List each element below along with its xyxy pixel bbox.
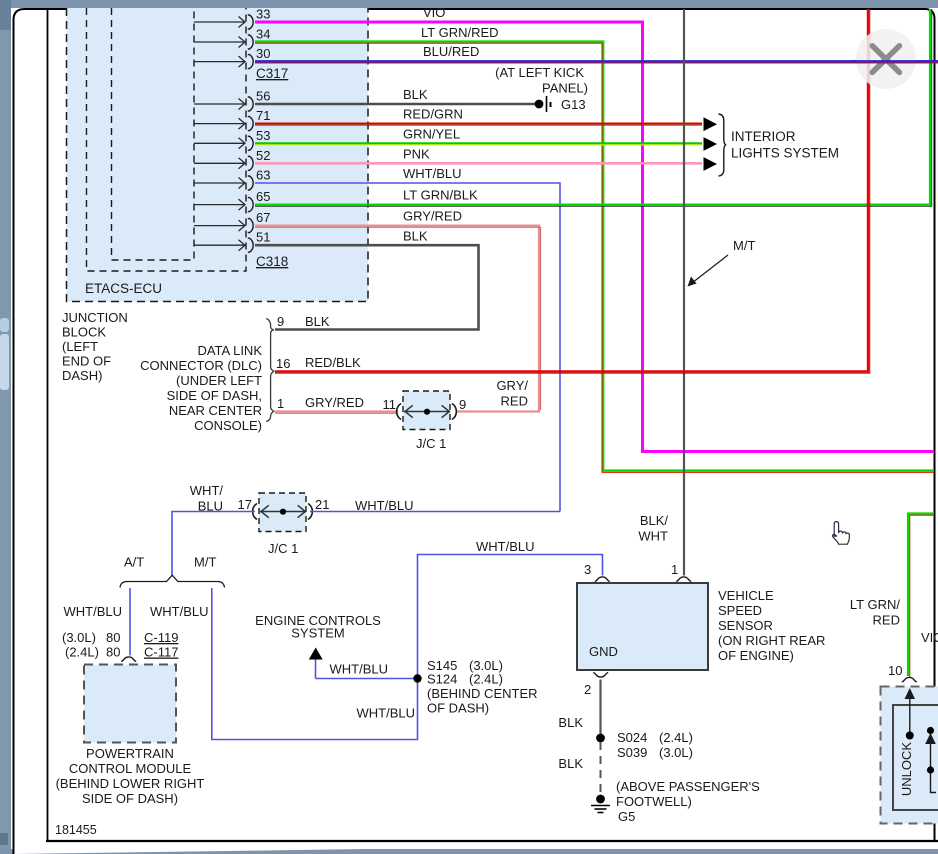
- G5 label: [618, 809, 635, 824]
- pin 10 bracket: [902, 677, 917, 682]
- wire GRN/YEL label: [403, 127, 460, 142]
- wire VIO label: [423, 5, 445, 20]
- ETACS pin 63 arrow: [194, 178, 245, 189]
- svg-text:SENSOR: SENSOR: [718, 618, 773, 633]
- J/C 1 (upper) label: [416, 436, 446, 451]
- ETACS pin 56 connector bracket: [248, 89, 271, 112]
- UNLOCK rotated label: [899, 742, 914, 797]
- svg-text:SIDE OF DASH,: SIDE OF DASH,: [167, 388, 262, 403]
- wire PNK pin52: [255, 162, 702, 165]
- ETACS pin 34 arrow: [194, 37, 245, 48]
- wire GRY from VSS pin2 to S024: [599, 680, 601, 738]
- svg-text:1: 1: [671, 562, 678, 577]
- svg-text:GRY/RED: GRY/RED: [305, 395, 364, 410]
- wire LT GRN/RED lower segment to pin 10: [908, 514, 934, 678]
- ETACS pin 30 arrow: [194, 56, 245, 67]
- svg-text:71: 71: [256, 108, 270, 123]
- wire BLK pin56 to G13: [255, 103, 535, 106]
- svg-text:(2.4L): (2.4L): [469, 672, 503, 687]
- wire WHT/BLU from J/C1 pin17 down to A/T M/T brace: [172, 512, 255, 576]
- VSS pin 2 bracket: [584, 673, 608, 698]
- svg-text:RED: RED: [873, 613, 900, 628]
- svg-text:(2.4L): (2.4L): [65, 645, 99, 660]
- svg-text:RED: RED: [501, 394, 528, 409]
- svg-text:VIO: VIO: [921, 630, 938, 645]
- svg-text:3: 3: [584, 562, 591, 577]
- svg-text:1: 1: [277, 396, 284, 411]
- ENGINE CONTROLS SYSTEM label: [255, 613, 381, 641]
- wire GRY/RED pin67 (salmon): [255, 226, 541, 412]
- svg-text:OF ENGINE): OF ENGINE): [718, 648, 794, 663]
- svg-text:(2.4L): (2.4L): [659, 730, 693, 745]
- svg-text:BLOCK: BLOCK: [62, 325, 106, 340]
- ETACS pin 52 connector bracket: [248, 148, 271, 171]
- svg-text:VEHICLE: VEHICLE: [718, 588, 774, 603]
- M/T branch lower WHT/BLU label: [357, 706, 416, 721]
- wire GRY/RED from DLC pin1 to J/C1: [275, 412, 398, 414]
- svg-text:DATA LINK: DATA LINK: [197, 343, 262, 358]
- wire WHT/BLU label: [403, 166, 462, 181]
- svg-text:(BEHIND LOWER RIGHT: (BEHIND LOWER RIGHT: [56, 776, 205, 791]
- wire BLK label: [403, 87, 428, 102]
- svg-text:C318: C318: [256, 254, 288, 269]
- ETACS-ECU label: [85, 281, 162, 296]
- svg-text:30: 30: [256, 46, 270, 61]
- svg-text:FOOTWELL): FOOTWELL): [616, 794, 692, 809]
- ETACS pin 67 connector bracket: [248, 210, 271, 233]
- svg-text:SPEED: SPEED: [718, 603, 762, 618]
- svg-text:BLK: BLK: [558, 715, 583, 730]
- svg-text:63: 63: [256, 168, 270, 183]
- svg-text:M/T: M/T: [733, 238, 755, 253]
- VSS pin 3 bracket: [584, 562, 610, 582]
- wire RED/GRN label: [403, 107, 463, 122]
- top window band: [0, 0, 938, 8]
- svg-text:DASH): DASH): [62, 368, 102, 383]
- wire WHT/BLU M/T branch: [212, 555, 603, 740]
- diagram left border line: [47, 9, 49, 841]
- engine controls arrow: [309, 648, 323, 660]
- ETACS pin 52 arrow: [194, 158, 245, 169]
- close button: [856, 29, 916, 89]
- svg-text:GRY/: GRY/: [496, 378, 528, 393]
- svg-text:(3.0L): (3.0L): [659, 745, 693, 760]
- junction connector J/C 1 (upper) box: [403, 391, 450, 430]
- svg-text:INTERIOR: INTERIOR: [731, 129, 796, 144]
- svg-text:52: 52: [256, 148, 270, 163]
- svg-text:UNLOCK: UNLOCK: [899, 742, 914, 797]
- svg-text:RED/GRN: RED/GRN: [403, 107, 463, 122]
- DLC BLK wire label: [305, 314, 330, 329]
- wire WHT/BLU A/T branch: [129, 588, 131, 656]
- engine controls branch WHT/BLU label: [330, 662, 389, 677]
- svg-text:C-117: C-117: [144, 645, 178, 660]
- wire WHT/BLU from J/C1 pin21 to vertical: [310, 511, 560, 513]
- svg-text:BLK/: BLK/: [640, 513, 669, 528]
- svg-text:OF DASH): OF DASH): [427, 701, 489, 716]
- ETACS-ECU inner dashed box 2: [87, 8, 247, 271]
- svg-text:(3.0L): (3.0L): [62, 630, 96, 645]
- svg-text:BLK: BLK: [305, 314, 330, 329]
- svg-text:SYSTEM: SYSTEM: [291, 626, 344, 641]
- svg-text:11: 11: [383, 397, 397, 412]
- connector C318 label: [256, 254, 288, 269]
- svg-text:BLK: BLK: [558, 756, 583, 771]
- INTERIOR LIGHTS SYSTEM label: [731, 129, 839, 161]
- svg-text:M/T: M/T: [194, 555, 216, 570]
- BLK label lower: [558, 756, 583, 771]
- ETACS-ECU inner dashed box 3: [112, 8, 195, 260]
- svg-text:(UNDER LEFT: (UNDER LEFT: [176, 373, 262, 388]
- door lock dashed box (UNLOCK): [881, 687, 938, 824]
- svg-text:RED/BLK: RED/BLK: [305, 355, 361, 370]
- ETACS pin 34 connector bracket: [248, 27, 271, 50]
- ETACS pin 51 arrow: [194, 240, 245, 251]
- wire PNK label: [403, 147, 430, 162]
- J/C 1 (lower) right bracket pin 21: [308, 497, 329, 520]
- svg-text:S124: S124: [427, 672, 457, 687]
- svg-text:GND: GND: [589, 644, 618, 659]
- LT GRN/RED label (right): [850, 597, 900, 628]
- ETACS pin 67 arrow: [194, 220, 245, 231]
- pin 10 label: [888, 663, 902, 678]
- interior lights arrow 2 (GRN/YEL): [704, 137, 718, 151]
- VSS caption: [718, 588, 825, 663]
- wire BLK dashed to G5: [600, 742, 602, 797]
- svg-text:CONSOLE): CONSOLE): [194, 418, 262, 433]
- ETACS pin 51 connector bracket: [248, 230, 271, 253]
- PCM caption: [56, 746, 205, 806]
- svg-text:PANEL): PANEL): [542, 81, 588, 96]
- (3.0L) 80 C-119 row: [62, 630, 178, 645]
- svg-text:16: 16: [276, 356, 290, 371]
- A/T M/T split brace: [120, 575, 225, 587]
- ETACS pin 65 arrow: [194, 199, 245, 210]
- svg-text:(ABOVE PASSENGER'S: (ABOVE PASSENGER'S: [616, 779, 760, 794]
- svg-text:67: 67: [256, 210, 270, 225]
- wire BLK pin51 to DLC pin9: [255, 245, 479, 329]
- svg-text:WHT/BLU: WHT/BLU: [330, 662, 389, 677]
- VIO label (right, clipped): [921, 630, 938, 645]
- J/C 1 (upper) left bracket pin 11: [383, 397, 402, 420]
- VSS pin 1 bracket: [671, 562, 691, 582]
- interior lights arrow 1 (RED/GRN): [704, 117, 718, 131]
- M/T callout arrow: [688, 255, 729, 287]
- hand cursor: [832, 522, 849, 545]
- wire LT GRN/BLK pin65 (green w black stripe): [255, 9, 932, 206]
- interior lights brace: [719, 114, 727, 176]
- svg-text:2: 2: [584, 682, 591, 697]
- svg-text:(LEFT: (LEFT: [62, 339, 98, 354]
- svg-text:POWERTRAIN: POWERTRAIN: [86, 746, 174, 761]
- BLK label upper: [558, 715, 583, 730]
- A/T label: [124, 555, 144, 570]
- left window band: [0, 0, 11, 850]
- WHT/BLU label left of lower J/C 1: [190, 483, 224, 514]
- JUNCTION BLOCK caption: [62, 310, 128, 383]
- wire RED/BLK from DLC pin16 (red w black stripe): [275, 9, 870, 373]
- ground G13 symbol: [535, 96, 586, 112]
- svg-text:A/T: A/T: [124, 555, 144, 570]
- svg-text:53: 53: [256, 128, 270, 143]
- wire RED/GRN pin71 (red w green stripe): [255, 124, 702, 126]
- svg-text:9: 9: [277, 314, 284, 329]
- DLC connector bracket with pin bumps: [266, 314, 290, 422]
- svg-text:C-119: C-119: [144, 630, 178, 645]
- svg-text:65: 65: [256, 189, 270, 204]
- wire LT GRN/BLK label: [403, 188, 478, 203]
- J/C 1 (lower) left bracket pin 17: [238, 497, 257, 520]
- svg-text:34: 34: [256, 27, 270, 42]
- svg-text:J/C 1: J/C 1: [416, 436, 446, 451]
- J/C 1 (lower) internals: [260, 505, 306, 517]
- junction connector J/C 1 (lower) box: [259, 493, 306, 532]
- wire BLU/RED overlay across close button: [850, 61, 938, 63]
- svg-text:LT GRN/BLK: LT GRN/BLK: [403, 188, 478, 203]
- M/T label: [194, 555, 216, 570]
- svg-text:G13: G13: [561, 97, 586, 112]
- svg-text:S039: S039: [617, 745, 647, 760]
- svg-text:9: 9: [459, 397, 466, 412]
- svg-text:ETACS-ECU: ETACS-ECU: [85, 281, 162, 296]
- svg-text:LT GRN/RED: LT GRN/RED: [421, 25, 499, 40]
- wire LT GRN/RED pin34 (green w red stripe): [255, 42, 934, 473]
- svg-text:WHT: WHT: [638, 529, 668, 544]
- G13 location note: [495, 65, 588, 96]
- splice S145/S124 dot: [413, 674, 421, 682]
- WHT/BLU label above VSS wire: [476, 539, 535, 554]
- wire BLU/RED pin30 (blue w red stripe): [255, 61, 938, 63]
- svg-text:80: 80: [106, 630, 120, 645]
- DATA LINK CONNECTOR caption: [140, 343, 262, 433]
- splice S024/S039 labels: [617, 730, 693, 760]
- diagram number 181455: [55, 823, 97, 837]
- ETACS pin 53 connector bracket: [248, 128, 271, 151]
- vehicle speed sensor box: [577, 583, 708, 670]
- svg-text:CONTROL MODULE: CONTROL MODULE: [69, 761, 192, 776]
- splice S145/S124 labels: [427, 658, 538, 716]
- ETACS pin 53 arrow: [194, 138, 245, 149]
- svg-text:17: 17: [238, 497, 252, 512]
- svg-text:BLK: BLK: [403, 229, 428, 244]
- svg-text:21: 21: [315, 497, 329, 512]
- svg-text:BLK: BLK: [403, 87, 428, 102]
- svg-text:CONNECTOR (DLC): CONNECTOR (DLC): [140, 358, 262, 373]
- ETACS pin 71 connector bracket: [248, 108, 271, 131]
- bottom window band: [0, 849, 938, 854]
- wire LT GRN/RED label: [421, 25, 499, 40]
- ground G5 symbol: [591, 795, 610, 813]
- svg-text:G5: G5: [618, 809, 635, 824]
- svg-text:S024: S024: [617, 730, 647, 745]
- ETACS pin 33 connector bracket: [248, 7, 271, 30]
- G5 location note: [616, 779, 760, 809]
- svg-text:PNK: PNK: [403, 147, 430, 162]
- DLC GRY/RED wire label: [305, 395, 364, 410]
- svg-text:SIDE OF DASH): SIDE OF DASH): [82, 791, 178, 806]
- door lock switch inner box: [893, 705, 938, 810]
- svg-text:BLU/RED: BLU/RED: [423, 44, 479, 59]
- svg-text:(AT LEFT KICK: (AT LEFT KICK: [495, 65, 584, 80]
- svg-text:WHT/BLU: WHT/BLU: [357, 706, 416, 721]
- switch arrow 1: [905, 688, 916, 740]
- ETACS-ECU outer dashed box (blue): [67, 8, 369, 302]
- M/T branch WHT/BLU label: [150, 604, 209, 619]
- wire BLU/RED label: [423, 44, 479, 59]
- wire RED/BLK label: [305, 355, 361, 370]
- ETACS pin 30 connector bracket: [248, 46, 271, 69]
- VSS GND label: [589, 644, 618, 659]
- powertrain control module dashed box: [84, 665, 176, 743]
- svg-text:WHT/BLU: WHT/BLU: [150, 604, 209, 619]
- (2.4L) 80 C-117 row: [65, 645, 178, 660]
- GRY/RED right label (near J/C1): [496, 378, 528, 409]
- switch arrow 2: [925, 727, 936, 793]
- J/C 1 (upper) right bracket pin 9: [452, 397, 466, 420]
- J/C 1 (lower) label: [268, 541, 298, 556]
- svg-text:END OF: END OF: [62, 354, 111, 369]
- splice S024/S039 dot: [596, 734, 605, 743]
- svg-text:10: 10: [888, 663, 902, 678]
- ETACS pin 56 arrow: [194, 99, 245, 110]
- WHT/BLU label right of lower J/C 1: [355, 498, 414, 513]
- wire BLK/WHT vertical (to VSS pin 1): [683, 9, 685, 576]
- wire WHT/BLU pin63: [255, 183, 560, 512]
- wire GRN/YEL pin53 (green w yellow stripe): [255, 143, 702, 145]
- svg-text:56: 56: [256, 89, 270, 104]
- svg-text:80: 80: [106, 645, 120, 660]
- svg-text:JUNCTION: JUNCTION: [62, 310, 128, 325]
- wire VIO pin33 (magenta): [255, 22, 934, 452]
- J/C 1 (upper) internals: [404, 405, 450, 417]
- svg-text:GRY/RED: GRY/RED: [403, 209, 462, 224]
- svg-text:LT GRN/: LT GRN/: [850, 597, 900, 612]
- svg-text:(ON RIGHT REAR: (ON RIGHT REAR: [718, 633, 825, 648]
- svg-text:WHT/: WHT/: [190, 483, 224, 498]
- svg-text:WHT/BLU: WHT/BLU: [476, 539, 535, 554]
- svg-text:WHT/BLU: WHT/BLU: [403, 166, 462, 181]
- wire BLK/WHT label: [638, 513, 668, 544]
- svg-text:J/C 1: J/C 1: [268, 541, 298, 556]
- diagram bottom border line: [46, 840, 938, 842]
- svg-text:NEAR CENTER: NEAR CENTER: [169, 403, 262, 418]
- connector C317 label: [256, 66, 288, 81]
- svg-text:C317: C317: [256, 66, 288, 81]
- ETACS pin 33 arrow: [194, 17, 245, 28]
- svg-text:51: 51: [256, 230, 270, 245]
- svg-text:WHT/BLU: WHT/BLU: [64, 604, 123, 619]
- ETACS pin 63 connector bracket: [248, 168, 271, 191]
- PCM pin bracket: [121, 657, 136, 662]
- ETACS pin 65 connector bracket: [248, 189, 271, 212]
- wire BLK label (pin51): [403, 229, 428, 244]
- A/T branch WHT/BLU label: [64, 604, 123, 619]
- svg-text:(BEHIND CENTER: (BEHIND CENTER: [427, 686, 538, 701]
- interior lights arrow 3 (PNK): [704, 157, 718, 171]
- ETACS pin 71 arrow: [194, 118, 245, 129]
- engine controls branch wire: [316, 659, 418, 679]
- svg-text:VIO: VIO: [423, 5, 445, 20]
- svg-text:LIGHTS SYSTEM: LIGHTS SYSTEM: [731, 146, 839, 161]
- svg-text:181455: 181455: [55, 823, 97, 837]
- wire GRY/RED label: [403, 209, 462, 224]
- M/T callout label: [733, 238, 755, 253]
- svg-text:GRN/YEL: GRN/YEL: [403, 127, 460, 142]
- svg-text:33: 33: [256, 7, 270, 22]
